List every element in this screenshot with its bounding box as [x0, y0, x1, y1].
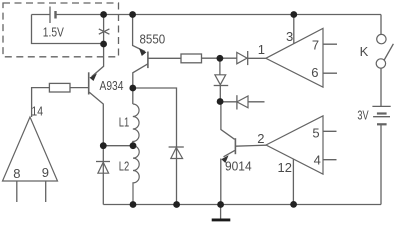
svg-text:L2: L2 [119, 158, 130, 173]
svg-text:K: K [360, 44, 369, 59]
svg-text:12: 12 [278, 160, 292, 175]
svg-text:A934: A934 [100, 78, 124, 93]
svg-text:7: 7 [312, 38, 319, 53]
svg-text:5: 5 [312, 126, 319, 141]
svg-text:1.5V: 1.5V [43, 25, 64, 40]
svg-text:8: 8 [13, 166, 20, 181]
svg-text:9: 9 [42, 165, 49, 180]
svg-text:14: 14 [31, 104, 43, 119]
svg-text:L1: L1 [119, 114, 130, 129]
svg-text:1: 1 [258, 42, 265, 57]
svg-text:8550: 8550 [140, 32, 166, 47]
svg-text:2: 2 [257, 131, 264, 146]
svg-text:4: 4 [314, 153, 321, 168]
svg-text:3: 3 [286, 29, 293, 44]
svg-text:6: 6 [311, 65, 318, 80]
svg-text:3V: 3V [357, 108, 368, 123]
svg-text:9014: 9014 [225, 158, 252, 173]
